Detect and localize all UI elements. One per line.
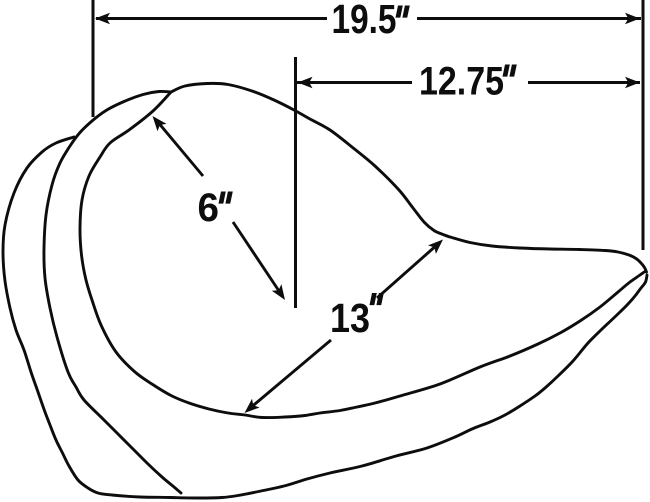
svg-text:13: 13 [330, 295, 370, 341]
svg-text:12.75: 12.75 [419, 60, 504, 104]
svg-text:19.5: 19.5 [332, 0, 397, 42]
svg-text:6: 6 [198, 186, 220, 230]
